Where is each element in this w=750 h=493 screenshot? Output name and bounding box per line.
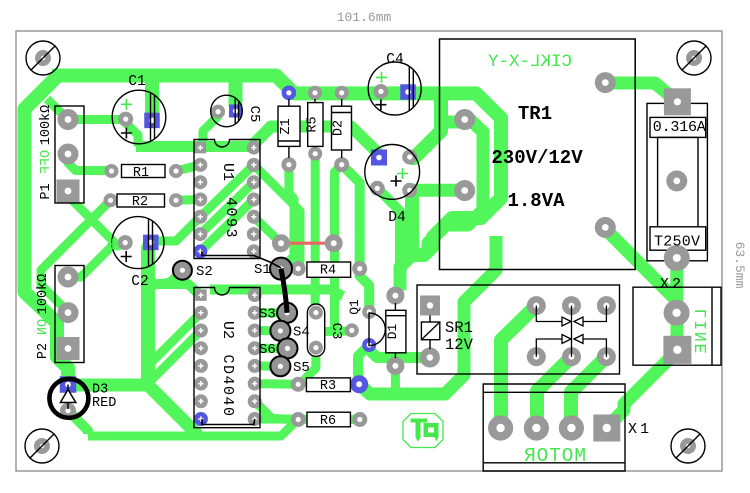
resistor R3 left pad bbox=[291, 377, 306, 392]
op-amp U1 pin 7 blue pad bbox=[193, 244, 207, 258]
wire P2 top pad diagonal up to C2 gray pad bbox=[68, 243, 125, 277]
wire U2 pin8 link bbox=[202, 419, 255, 425]
svg-text:R5: R5 bbox=[306, 116, 321, 132]
svg-text:100kΩ: 100kΩ bbox=[36, 274, 51, 315]
pot P1 pad 2 bbox=[58, 144, 79, 165]
svg-text:P2: P2 bbox=[36, 343, 51, 359]
counter U2 pin 12 pad bbox=[248, 341, 262, 355]
relay SR1 outline bbox=[417, 285, 620, 374]
connector X1 pad 1 bbox=[488, 415, 513, 440]
connector X1 square pad bbox=[593, 415, 620, 442]
capacitor C3 outline bbox=[307, 304, 324, 356]
svg-text:CD4040: CD4040 bbox=[219, 354, 236, 417]
transformer TR1 pad primary bottom bbox=[595, 217, 616, 238]
capacitor C1 positive pad bbox=[144, 113, 160, 128]
capacitor C1 outline bbox=[112, 90, 166, 144]
wire U1 pin R2 diag down to R4 left pad bbox=[254, 165, 300, 269]
diode D4 pad SW bbox=[370, 181, 385, 196]
transformer TR1 outline bbox=[440, 39, 636, 270]
wire fuse bottom pad to X2 round pad bbox=[670, 258, 683, 313]
wire R5 bottom pad down to C3 top pad bbox=[311, 154, 321, 313]
svg-text:U1: U1 bbox=[219, 163, 236, 181]
relay SR1 contact pad top-right bbox=[597, 296, 616, 315]
svg-text:Q1: Q1 bbox=[347, 299, 362, 315]
svg-text:R6: R6 bbox=[320, 414, 336, 429]
wire U2 pin R8 to R6 right pad bbox=[255, 415, 360, 425]
relay SR1 contact pad top-left bbox=[527, 296, 546, 315]
op-amp U1 pin 4 pad bbox=[193, 193, 207, 207]
wire R2 left pad long diagonal down to P2 middle pad bbox=[41, 200, 111, 312]
resistor R4 outline bbox=[307, 262, 351, 277]
diode D4 pad SE bbox=[402, 183, 417, 198]
wire C5 gray pad diagonal down to U1 pin1 bbox=[203, 112, 218, 144]
wire X2 square pad to X1 square pad bbox=[611, 351, 677, 423]
wire C1 gray pad diagonal down to U1 notch band bbox=[126, 119, 138, 146]
capacitor C4 outline bbox=[368, 62, 421, 115]
wire U1 diag R3-L6 bbox=[200, 182, 254, 234]
resistor R6 outline bbox=[307, 412, 350, 427]
diode D1 bottom pad bbox=[386, 357, 404, 375]
counter U2 pin 11 pad bbox=[248, 324, 262, 338]
wire LED D3 cathode pad diagonal to bottom band bbox=[68, 411, 88, 434]
svg-text:Z1: Z1 bbox=[279, 118, 294, 134]
svg-text:S3: S3 bbox=[259, 307, 276, 323]
svg-text:12V: 12V bbox=[445, 336, 474, 354]
jumper S2 pad bbox=[173, 261, 192, 280]
op-amp U1 pin 14 pad bbox=[247, 244, 261, 258]
resistor R1 left pad bbox=[105, 164, 119, 178]
diode D2 outline bbox=[332, 99, 352, 158]
counter U2 pin 14 pad bbox=[248, 377, 262, 391]
LED D3 symbol bbox=[60, 385, 75, 410]
pot P2 pad 1 bbox=[58, 267, 79, 288]
jumper S4 pad bbox=[270, 321, 290, 341]
counter U2 pin 3 pad bbox=[194, 324, 208, 338]
counter U2 pin 6 pad bbox=[194, 377, 208, 391]
wire trunk branch to U2 pin L1 bbox=[148, 284, 199, 294]
wire C2 blue pad trunk down to D3 junction bbox=[148, 243, 151, 385]
connector X2 square pad bbox=[663, 336, 691, 364]
connector X1 pad 3 bbox=[559, 415, 584, 440]
svg-text:1.8VA: 1.8VA bbox=[507, 190, 565, 212]
transformer TR1 pad secondary top bbox=[454, 109, 475, 130]
capacitor C4 positive pad bbox=[400, 84, 416, 100]
pot P2 pad 2 bbox=[58, 302, 79, 323]
diode D2 bottom pad bbox=[334, 157, 349, 172]
svg-text:U2: U2 bbox=[219, 321, 236, 339]
svg-text:MOTOR: MOTOR bbox=[524, 445, 586, 467]
svg-text:D2: D2 bbox=[332, 120, 347, 136]
jumper S5 pad bbox=[270, 356, 290, 376]
svg-text:D4: D4 bbox=[388, 210, 405, 226]
wire P1 middle pad to R1 left pad bbox=[68, 154, 111, 171]
transistor Q1 pad C blue bbox=[362, 338, 376, 352]
op-amp U1 pin 13 pad bbox=[247, 227, 261, 241]
wire U1 pin7 to S1 link bbox=[202, 251, 281, 268]
node red jumper left pad bbox=[272, 234, 290, 252]
connector X1 outline bbox=[483, 384, 625, 471]
counter U2 pin 16 pad bbox=[248, 412, 262, 426]
diode D2 top pad bbox=[335, 86, 349, 100]
wire P1 top pad to C1 gray pad bbox=[68, 115, 122, 124]
mounting hole top-right bbox=[677, 41, 711, 75]
counter U2 pin 10 pad bbox=[248, 306, 262, 320]
pot P1 pad 1 bbox=[58, 109, 79, 130]
capacitor C2 plus marks bbox=[107, 239, 118, 250]
fuse F1 body box bbox=[658, 137, 698, 229]
LED D3 cathode pad bbox=[60, 403, 76, 419]
wire Q1 blue pad to relay coil round pad bbox=[369, 345, 424, 358]
wire branch to TR1 pad A bbox=[441, 116, 465, 129]
op-amp U1 pin 10 pad bbox=[247, 175, 261, 189]
connector X1 pad 2 bbox=[524, 415, 549, 440]
capacitor C5 pad right bbox=[229, 105, 242, 118]
wire Z1 bottom pad down to S1 pad bbox=[281, 165, 294, 269]
svg-text:RED: RED bbox=[92, 396, 116, 411]
svg-text:LINE: LINE bbox=[692, 309, 711, 354]
op-amp U1 pin 3 pad bbox=[193, 175, 207, 189]
resistor R2 outline bbox=[117, 194, 165, 207]
diode D4 blue pad bbox=[371, 150, 387, 166]
wire relay bottom-right contact to X1 pad 3 bbox=[571, 357, 606, 428]
wire U2 pin R7 diag to R6 left pad bbox=[255, 401, 299, 419]
relay SR1 contact pad bot-right bbox=[597, 347, 616, 366]
capacitor C1 negative pad bbox=[118, 112, 133, 127]
wire U1 pin L5 to C2 blue pad bbox=[151, 217, 200, 243]
op-amp U1 pin 11 pad bbox=[247, 193, 261, 207]
wire bottom long band to R6 left pad bbox=[88, 420, 298, 437]
op-amp U1 pin 12 pad bbox=[247, 210, 261, 224]
svg-text:4093: 4093 bbox=[222, 197, 239, 239]
fuse F1 voltage box bbox=[650, 227, 706, 250]
wire C3 bottom pad down to R3 left pad bbox=[302, 348, 316, 385]
zener Z1 outline bbox=[278, 99, 300, 158]
svg-text:C2: C2 bbox=[131, 274, 148, 290]
wire U2 pin R5 stub to S5 bbox=[255, 361, 281, 370]
resistor R5 bottom pad bbox=[308, 147, 322, 161]
resistor R5 outline bbox=[308, 99, 323, 148]
wire TR1 bottom descender through relay to R3 blue pad bbox=[359, 236, 496, 394]
jumper S6 pad bbox=[278, 338, 298, 358]
svg-text:R2: R2 bbox=[132, 195, 148, 210]
svg-text:ON: ON bbox=[36, 319, 51, 335]
wire power drop right of C4 to D4 upper right pad bbox=[410, 93, 441, 158]
counter U2 pin 2 pad bbox=[194, 306, 208, 320]
counter U2 pin 4 pad bbox=[194, 341, 208, 355]
resistor R5 top pad bbox=[308, 86, 322, 100]
svg-text:P1: P1 bbox=[39, 183, 54, 199]
logo PT octagon bbox=[403, 414, 443, 448]
svg-text:R3: R3 bbox=[320, 379, 336, 394]
wire Q1 blue pad down to R3 blue pad bbox=[358, 348, 366, 384]
capacitor C2 outline bbox=[112, 217, 164, 269]
svg-text:C1: C1 bbox=[128, 74, 145, 90]
wire U2 pin R4 stub to S6 bbox=[255, 344, 288, 353]
wire U1 diag R4-L7 bbox=[200, 200, 254, 252]
wire U1 pin R1 up and right to D4 blue pad bbox=[254, 127, 378, 156]
relay SR1 contact pad top-mid bbox=[562, 296, 581, 315]
svg-text:S4: S4 bbox=[293, 325, 310, 341]
op-amp U1 pin 2 pad bbox=[193, 158, 207, 172]
capacitor C5 pad left bbox=[211, 105, 225, 119]
wire top power band left arm and left trunk down to D3 bbox=[25, 76, 69, 385]
counter U2 pin 8 blue pad bbox=[194, 412, 208, 426]
capacitor C3 top pad bbox=[309, 306, 323, 320]
resistor R2 right pad bbox=[169, 193, 183, 207]
resistor R4 left pad bbox=[291, 261, 306, 276]
counter U2 pin 7 pad bbox=[194, 394, 208, 408]
wire drop to C1 blue pad bbox=[145, 78, 159, 114]
svg-text:101.6mm: 101.6mm bbox=[337, 10, 392, 25]
svg-text:C3: C3 bbox=[328, 323, 344, 340]
svg-text:TR1: TR1 bbox=[518, 103, 552, 125]
transformer TR1 pad primary top bbox=[595, 72, 616, 93]
fuse F1 middle pad bbox=[666, 170, 687, 191]
counter U2 pin 9 pad bbox=[248, 288, 262, 302]
wire U1 pin R5 diag to red jumper left pad bbox=[254, 217, 281, 243]
resistor R3 right blue pad bbox=[350, 375, 368, 393]
relay SR1 contact pad bot-left bbox=[527, 347, 546, 366]
svg-text:CIKL-X-Y: CIKL-X-Y bbox=[487, 52, 572, 72]
transformer TR1 pad secondary bottom bbox=[454, 180, 475, 201]
wire TR1 outer ring from top band to D4 lower-right pad bbox=[412, 93, 501, 255]
fuse F1 square pad bbox=[664, 88, 691, 115]
wire top power band bbox=[52, 76, 441, 94]
zener Z1 bottom pad bbox=[281, 157, 296, 172]
wire U1 notch band bbox=[136, 141, 254, 152]
relay SR1 contact diodes row2 bbox=[536, 322, 606, 357]
resistor R2 left pad bbox=[104, 193, 118, 207]
diode D4 pad NE bbox=[402, 150, 417, 165]
wire U2 pin R2 stub to S3 bbox=[255, 308, 287, 317]
wire drop to C5 blue pad bbox=[229, 78, 243, 106]
transistor Q1 outline bbox=[369, 313, 385, 346]
counter U2 pin 15 pad bbox=[248, 394, 262, 408]
wire U2 pin R6 to R3 left pad bbox=[255, 379, 299, 389]
counter U2 pin 13 pad bbox=[248, 359, 262, 373]
svg-text:R1: R1 bbox=[133, 166, 149, 181]
op-amp U1 pin 9 pad bbox=[247, 158, 261, 172]
capacitor C4 plus marks bbox=[376, 72, 387, 83]
wire U1 diag R2-L5 bbox=[200, 165, 254, 217]
wire U2 pin R3 stub to S4 bbox=[255, 326, 281, 335]
relay SR1 coil symbol bbox=[421, 316, 439, 350]
jumper S1 pad bbox=[270, 258, 292, 280]
wire relay bottom-middle contact to X1 pad 2 bbox=[537, 357, 572, 428]
op-amp U1 pin 1 square pad bbox=[195, 142, 207, 154]
svg-text:C4: C4 bbox=[386, 52, 403, 68]
capacitor C1 plus marks bbox=[121, 99, 132, 110]
resistor R3 outline bbox=[306, 378, 350, 392]
jumper S3 pad bbox=[277, 303, 297, 323]
diode D4 plus marks bbox=[397, 168, 408, 179]
capacitor C2 positive pad bbox=[143, 235, 159, 251]
wire TR1 bottom-right pad to X2 square pad bbox=[605, 229, 677, 341]
diode D4 outline bbox=[365, 145, 420, 200]
LED D3 anode blue pad bbox=[60, 376, 77, 393]
wire R1 right pad to U1 pin L2 bbox=[176, 165, 200, 171]
mounting hole bottom-left bbox=[25, 429, 59, 463]
wire U2 diag L3 to trunk bbox=[152, 331, 201, 380]
counter U2 outline bbox=[194, 288, 260, 428]
transistor Q1 pad B bbox=[345, 323, 359, 337]
wire jumper S1 to S3 bbox=[281, 269, 287, 313]
resistor R1 right pad bbox=[169, 164, 183, 178]
pot P1 wiper pad bbox=[57, 180, 80, 203]
relay SR1 contact pad bot-mid bbox=[562, 347, 581, 366]
svg-text:S1: S1 bbox=[254, 262, 271, 278]
svg-text:100kΩ: 100kΩ bbox=[39, 105, 54, 146]
wire R4 right pad down to Q1 top pad bbox=[360, 269, 370, 312]
connector X2 outline bbox=[633, 287, 721, 365]
op-amp U1 pin 8 pad bbox=[247, 141, 261, 155]
transistor Q1 pad E bbox=[362, 305, 376, 319]
relay SR1 coil square pad bbox=[420, 296, 440, 316]
wire P1 wiper diagonal down to C2 gray pad bbox=[68, 191, 125, 246]
pot P2 wiper pad bbox=[57, 337, 80, 360]
pot P2 outline bbox=[55, 266, 84, 363]
resistor R6 left pad bbox=[291, 412, 306, 427]
LED D3 outline ring bbox=[49, 379, 88, 418]
svg-text:OFF: OFF bbox=[39, 150, 54, 174]
svg-text:SR1: SR1 bbox=[445, 319, 473, 337]
capacitor C4 negative pad bbox=[373, 84, 388, 99]
wire C3 to Q1 middle pad bbox=[320, 327, 352, 337]
wire D4 lower-right pad to TR1 pad B bbox=[410, 184, 465, 197]
wire red jumper bbox=[281, 242, 334, 245]
svg-text:D1: D1 bbox=[385, 324, 400, 340]
relay SR1 contact diodes row1 bbox=[536, 306, 606, 326]
svg-text:T250V: T250V bbox=[654, 234, 700, 251]
resistor R4 right pad bbox=[352, 261, 367, 276]
wire S2 stub bbox=[160, 270, 182, 284]
fuse F1 outer box bbox=[647, 103, 707, 260]
connector X2 round pad bbox=[664, 300, 690, 326]
wire D2 bottom pad to R4 right pad bbox=[342, 165, 360, 269]
zener Z1 top pad bbox=[282, 86, 297, 101]
svg-text:S5: S5 bbox=[293, 360, 310, 376]
wire trunk stub to P1 top pad bbox=[47, 99, 68, 120]
svg-text:230V/12V: 230V/12V bbox=[491, 147, 583, 169]
counter U2 pin 1 square pad bbox=[195, 289, 207, 301]
wire TR1 inner ring from pad A bbox=[428, 120, 483, 250]
mounting hole top-left bbox=[26, 41, 60, 75]
pot P1 outline bbox=[55, 106, 84, 203]
resistor R1 outline bbox=[122, 165, 166, 178]
wire TR1 top-right pad to fuse square pad bbox=[605, 83, 677, 102]
resistor R6 right pad bbox=[352, 412, 367, 427]
capacitor C5 outline bbox=[211, 95, 243, 127]
relay SR1 coil round pad bbox=[420, 348, 440, 368]
wire D3 junction horizontal band bbox=[68, 379, 153, 392]
logo PT text bbox=[411, 419, 439, 442]
mounting hole bottom-right bbox=[671, 429, 705, 463]
wire U2 diag L2 to trunk bbox=[148, 313, 201, 366]
fuse F1 bottom pad bbox=[664, 245, 690, 271]
node red jumper right pad bbox=[325, 234, 343, 252]
op-amp U1 outline bbox=[194, 140, 260, 259]
wire R2 right pad to U1 pin L4 bbox=[176, 195, 200, 205]
svg-text:S6: S6 bbox=[259, 342, 276, 358]
capacitor C2 negative pad bbox=[118, 235, 133, 250]
op-amp U1 pin 6 pad bbox=[193, 227, 207, 241]
svg-text:0.316A: 0.316A bbox=[653, 119, 706, 136]
wire D2 bottom pad via red pad column down to C3-Q1 band bbox=[335, 165, 342, 333]
capacitor C3 bottom pad bbox=[309, 341, 323, 355]
wire D1 bottom pad stub bbox=[391, 366, 400, 392]
svg-text:S2: S2 bbox=[196, 264, 213, 280]
svg-text:C5: C5 bbox=[246, 106, 262, 123]
diode D1 top pad bbox=[386, 287, 404, 305]
svg-text:63.5mm: 63.5mm bbox=[732, 242, 747, 289]
wire D3 junction diagonal down to bottom band bbox=[148, 385, 196, 434]
wire relay top-left contact to X1 pad 1 bbox=[501, 306, 536, 428]
op-amp U1 pin 5 pad bbox=[193, 210, 207, 224]
wire U2 notch band bbox=[210, 290, 343, 297]
wire D4 bottom-left pad to D1 top pad bbox=[377, 188, 400, 295]
counter U2 pin 5 pad bbox=[194, 359, 208, 373]
wire TR1 outer ring tail down to D1 feed bbox=[400, 255, 412, 290]
fuse F1 rating box bbox=[650, 117, 706, 137]
diode D1 outline bbox=[386, 303, 406, 358]
svg-text:R4: R4 bbox=[320, 264, 336, 279]
